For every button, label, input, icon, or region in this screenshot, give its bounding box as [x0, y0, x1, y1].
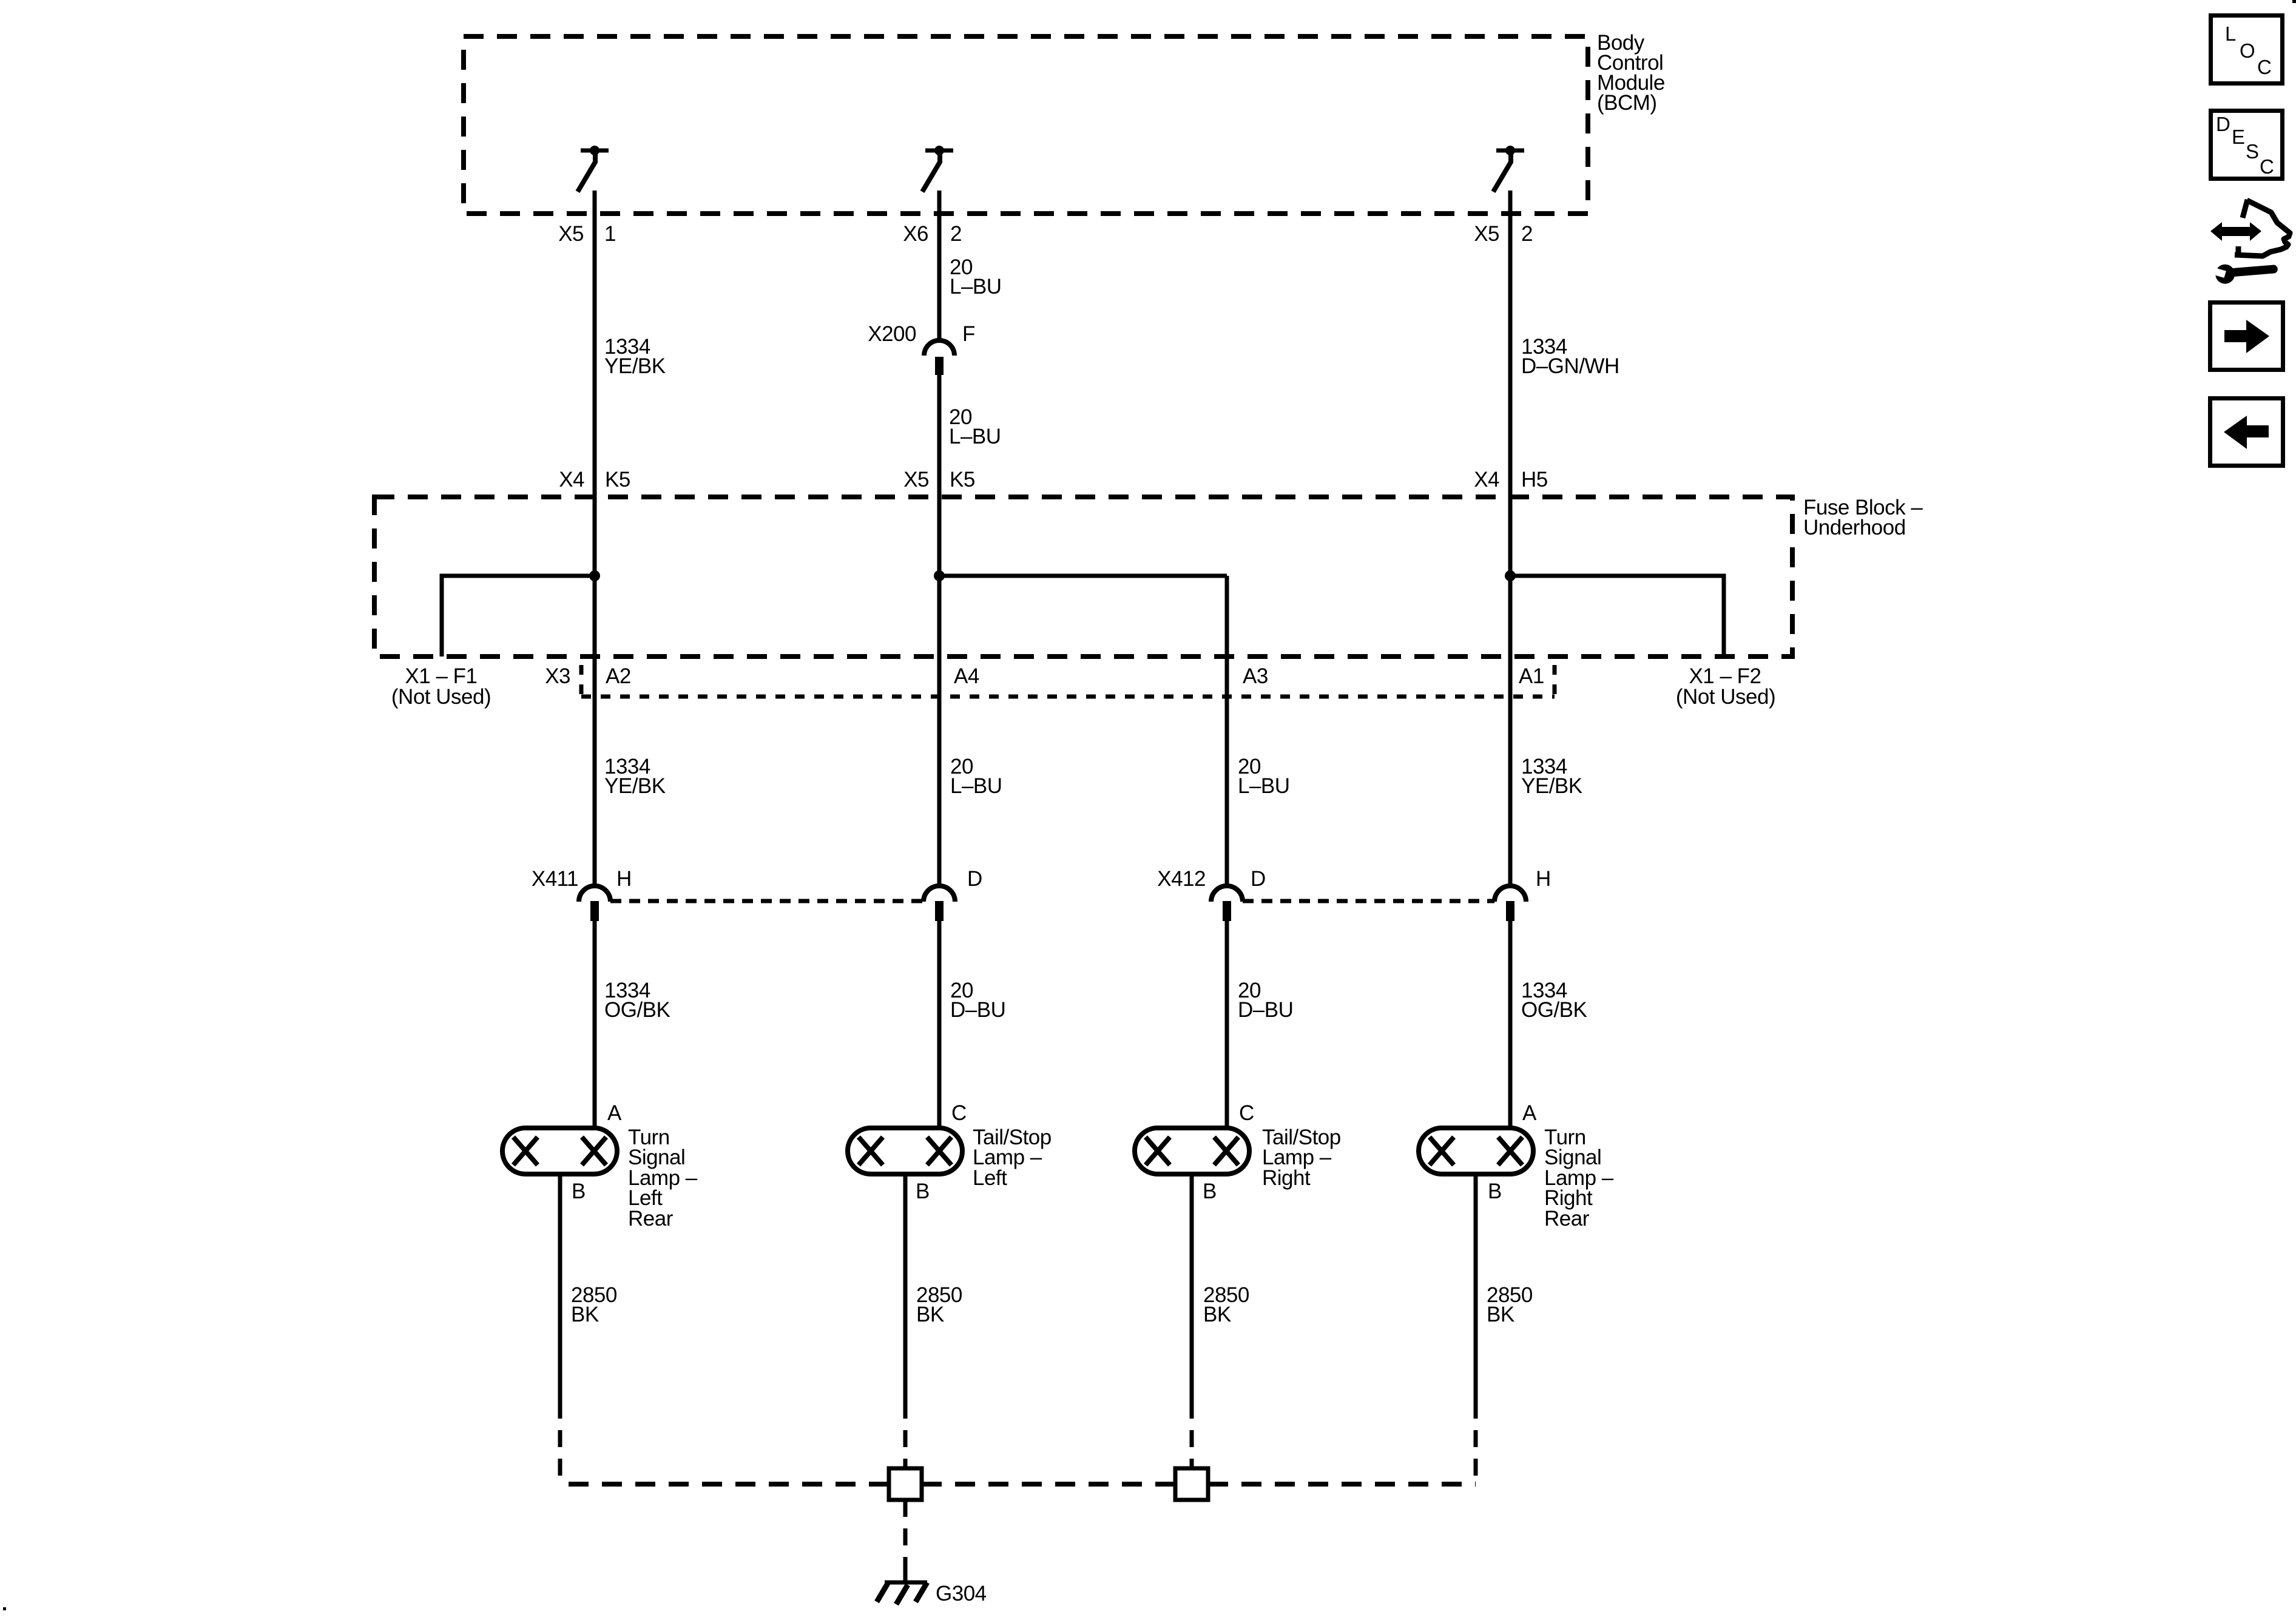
svg-text:B: B	[1488, 1180, 1502, 1203]
svg-text:L–BU: L–BU	[1238, 774, 1290, 798]
svg-text:Rear: Rear	[628, 1207, 674, 1230]
svg-text:X411: X411	[532, 867, 578, 891]
inline connector X3 dotted line	[581, 695, 1555, 699]
svg-text:F: F	[962, 322, 975, 346]
svg-text:L: L	[2225, 22, 2236, 45]
connector X411 cavity H arc	[579, 886, 610, 902]
dashed wire col4 down	[1474, 1402, 1478, 1487]
svg-text:E: E	[2232, 126, 2245, 148]
svg-text:X412: X412	[1157, 867, 1206, 891]
svg-text:X200: X200	[868, 322, 916, 346]
dashed harness jumper X411 to D	[610, 899, 923, 903]
wire 20 D-BU col2	[937, 921, 942, 1128]
svg-text:O: O	[2240, 39, 2255, 62]
svg-text:G304: G304	[936, 1582, 987, 1605]
svg-text:BK: BK	[571, 1303, 599, 1326]
svg-text:1: 1	[604, 222, 616, 246]
node J3 junction on wire 4	[1505, 570, 1516, 581]
wire 2850 BK col1	[558, 1174, 562, 1402]
svg-text:D–GN/WH: D–GN/WH	[1521, 354, 1619, 378]
svg-text:D: D	[1251, 867, 1266, 891]
back arrow icon box	[2210, 399, 2283, 466]
svg-text:(BCM): (BCM)	[1597, 91, 1657, 115]
Fuse Block - Underhood dashed box	[374, 497, 1792, 657]
page corner mark	[3, 1607, 6, 1610]
svg-text:X3: X3	[545, 664, 570, 688]
Body Control Module (BCM) dashed box	[464, 36, 1588, 214]
svg-text:H: H	[1536, 867, 1551, 891]
dashed wire col1 down	[558, 1402, 562, 1487]
svg-text:YE/BK: YE/BK	[1521, 774, 1582, 798]
svg-text:A: A	[607, 1101, 622, 1125]
inline connector X3 left bracket	[579, 665, 584, 697]
svg-text:YE/BK: YE/BK	[604, 774, 666, 798]
svg-text:X5: X5	[558, 222, 584, 246]
dashed harness jumper X412 to H	[1243, 899, 1494, 903]
svg-text:X6: X6	[903, 222, 928, 246]
switch SW2 (BCM output driver, middle)	[922, 146, 953, 192]
svg-text:A3: A3	[1243, 664, 1268, 688]
svg-text:B: B	[916, 1180, 930, 1203]
splice S2	[1175, 1468, 1208, 1500]
svg-text:2: 2	[950, 222, 962, 246]
wire 2850 BK col3	[1190, 1174, 1194, 1402]
wire 20 L-BU below X200	[937, 375, 942, 886]
dashed wire col2 down	[903, 1402, 908, 1468]
svg-text:A4: A4	[954, 664, 979, 688]
dashed wire splice S1 to ground	[903, 1500, 908, 1580]
splice S1	[889, 1468, 922, 1500]
node J2 junction on wire 2	[934, 570, 945, 581]
svg-text:BK: BK	[1203, 1303, 1231, 1326]
wire branch to X1-F1	[442, 576, 595, 657]
dashed ground bus middle segment	[922, 1482, 1175, 1487]
wire 2850 BK col4	[1474, 1174, 1478, 1402]
svg-text:H: H	[616, 867, 632, 891]
connector cavity D arc col2	[923, 886, 955, 902]
svg-text:K5: K5	[950, 468, 975, 491]
svg-text:OG/BK: OG/BK	[1521, 998, 1587, 1022]
wire 20 D-BU col3	[1225, 921, 1229, 1128]
svg-text:D: D	[2216, 113, 2230, 135]
svg-text:L–BU: L–BU	[950, 275, 1002, 299]
Turn Signal Lamp - Right Rear bulb E4	[1419, 1128, 1533, 1174]
inline connector X3 right bracket	[1553, 665, 1557, 697]
svg-text:(Not Used): (Not Used)	[391, 685, 491, 709]
wire A3 column down	[1225, 576, 1229, 886]
svg-text:H5: H5	[1521, 468, 1548, 491]
dashed wire col3 down	[1190, 1402, 1194, 1468]
svg-text:A1: A1	[1519, 664, 1544, 688]
svg-text:(Not Used): (Not Used)	[1676, 685, 1775, 709]
svg-text:A2: A2	[606, 664, 631, 688]
svg-text:S: S	[2246, 140, 2259, 163]
Turn Signal Lamp - Left Rear bulb E1	[502, 1128, 617, 1174]
svg-text:BK: BK	[1487, 1303, 1514, 1326]
ground G304 symbol	[877, 1573, 927, 1604]
svg-text:Underhood: Underhood	[1803, 516, 1906, 539]
svg-text:L–BU: L–BU	[949, 425, 1001, 448]
wire 1334 YE/BK from BCM X5-1	[593, 191, 597, 886]
svg-text:D: D	[967, 867, 982, 891]
LOC icon box	[2211, 16, 2283, 84]
svg-text:YE/BK: YE/BK	[604, 354, 666, 378]
connector cavity H arc col4	[1494, 886, 1526, 902]
forward arrow icon box	[2210, 303, 2283, 370]
wire 1334 D-GN/WH from BCM X5-2	[1508, 191, 1513, 886]
svg-text:Left: Left	[973, 1166, 1007, 1190]
adjust/repair hand icon	[2207, 200, 2290, 285]
DESC icon box	[2211, 111, 2283, 179]
svg-text:D–BU: D–BU	[950, 998, 1005, 1022]
svg-text:K5: K5	[605, 468, 630, 491]
wire 2850 BK col2	[903, 1174, 908, 1402]
svg-text:BK: BK	[916, 1303, 944, 1326]
page corner mark top-right	[2292, 0, 2296, 3]
svg-text:X5: X5	[1474, 222, 1499, 246]
svg-text:B: B	[572, 1180, 586, 1203]
wire branch to X1-F2	[1510, 576, 1724, 657]
Tail/Stop Lamp - Right bulb E3	[1135, 1128, 1249, 1174]
svg-text:OG/BK: OG/BK	[604, 998, 670, 1022]
svg-text:C: C	[1239, 1101, 1254, 1125]
svg-text:2: 2	[1521, 222, 1533, 246]
svg-text:L–BU: L–BU	[950, 774, 1002, 798]
svg-text:X4: X4	[1474, 468, 1499, 491]
switch SW3 (BCM output driver, right)	[1493, 146, 1524, 192]
node J1 junction on wire 1	[589, 570, 600, 581]
svg-text:D–BU: D–BU	[1238, 998, 1293, 1022]
svg-text:X4: X4	[559, 468, 584, 491]
switch SW1 (BCM output driver, left)	[578, 146, 609, 192]
Tail/Stop Lamp - Left bulb E2	[848, 1128, 962, 1174]
svg-text:B: B	[1203, 1180, 1217, 1203]
svg-text:Right: Right	[1262, 1166, 1311, 1190]
svg-text:C: C	[2257, 56, 2271, 78]
svg-text:A: A	[1522, 1101, 1537, 1125]
wire 1334 OG/BK col4	[1508, 921, 1513, 1128]
svg-text:X5: X5	[903, 468, 929, 491]
dashed ground bus left segment	[560, 1482, 889, 1487]
wire 20 L-BU from BCM X6-2	[937, 191, 942, 340]
dashed ground bus right segment	[1208, 1482, 1476, 1487]
svg-text:Rear: Rear	[1544, 1207, 1590, 1230]
wire branch to A3 column	[939, 574, 1227, 578]
wire 1334 OG/BK col1	[593, 921, 597, 1128]
connector X412 cavity D arc	[1211, 886, 1243, 902]
svg-text:C: C	[951, 1101, 967, 1125]
svg-text:C: C	[2260, 155, 2274, 178]
